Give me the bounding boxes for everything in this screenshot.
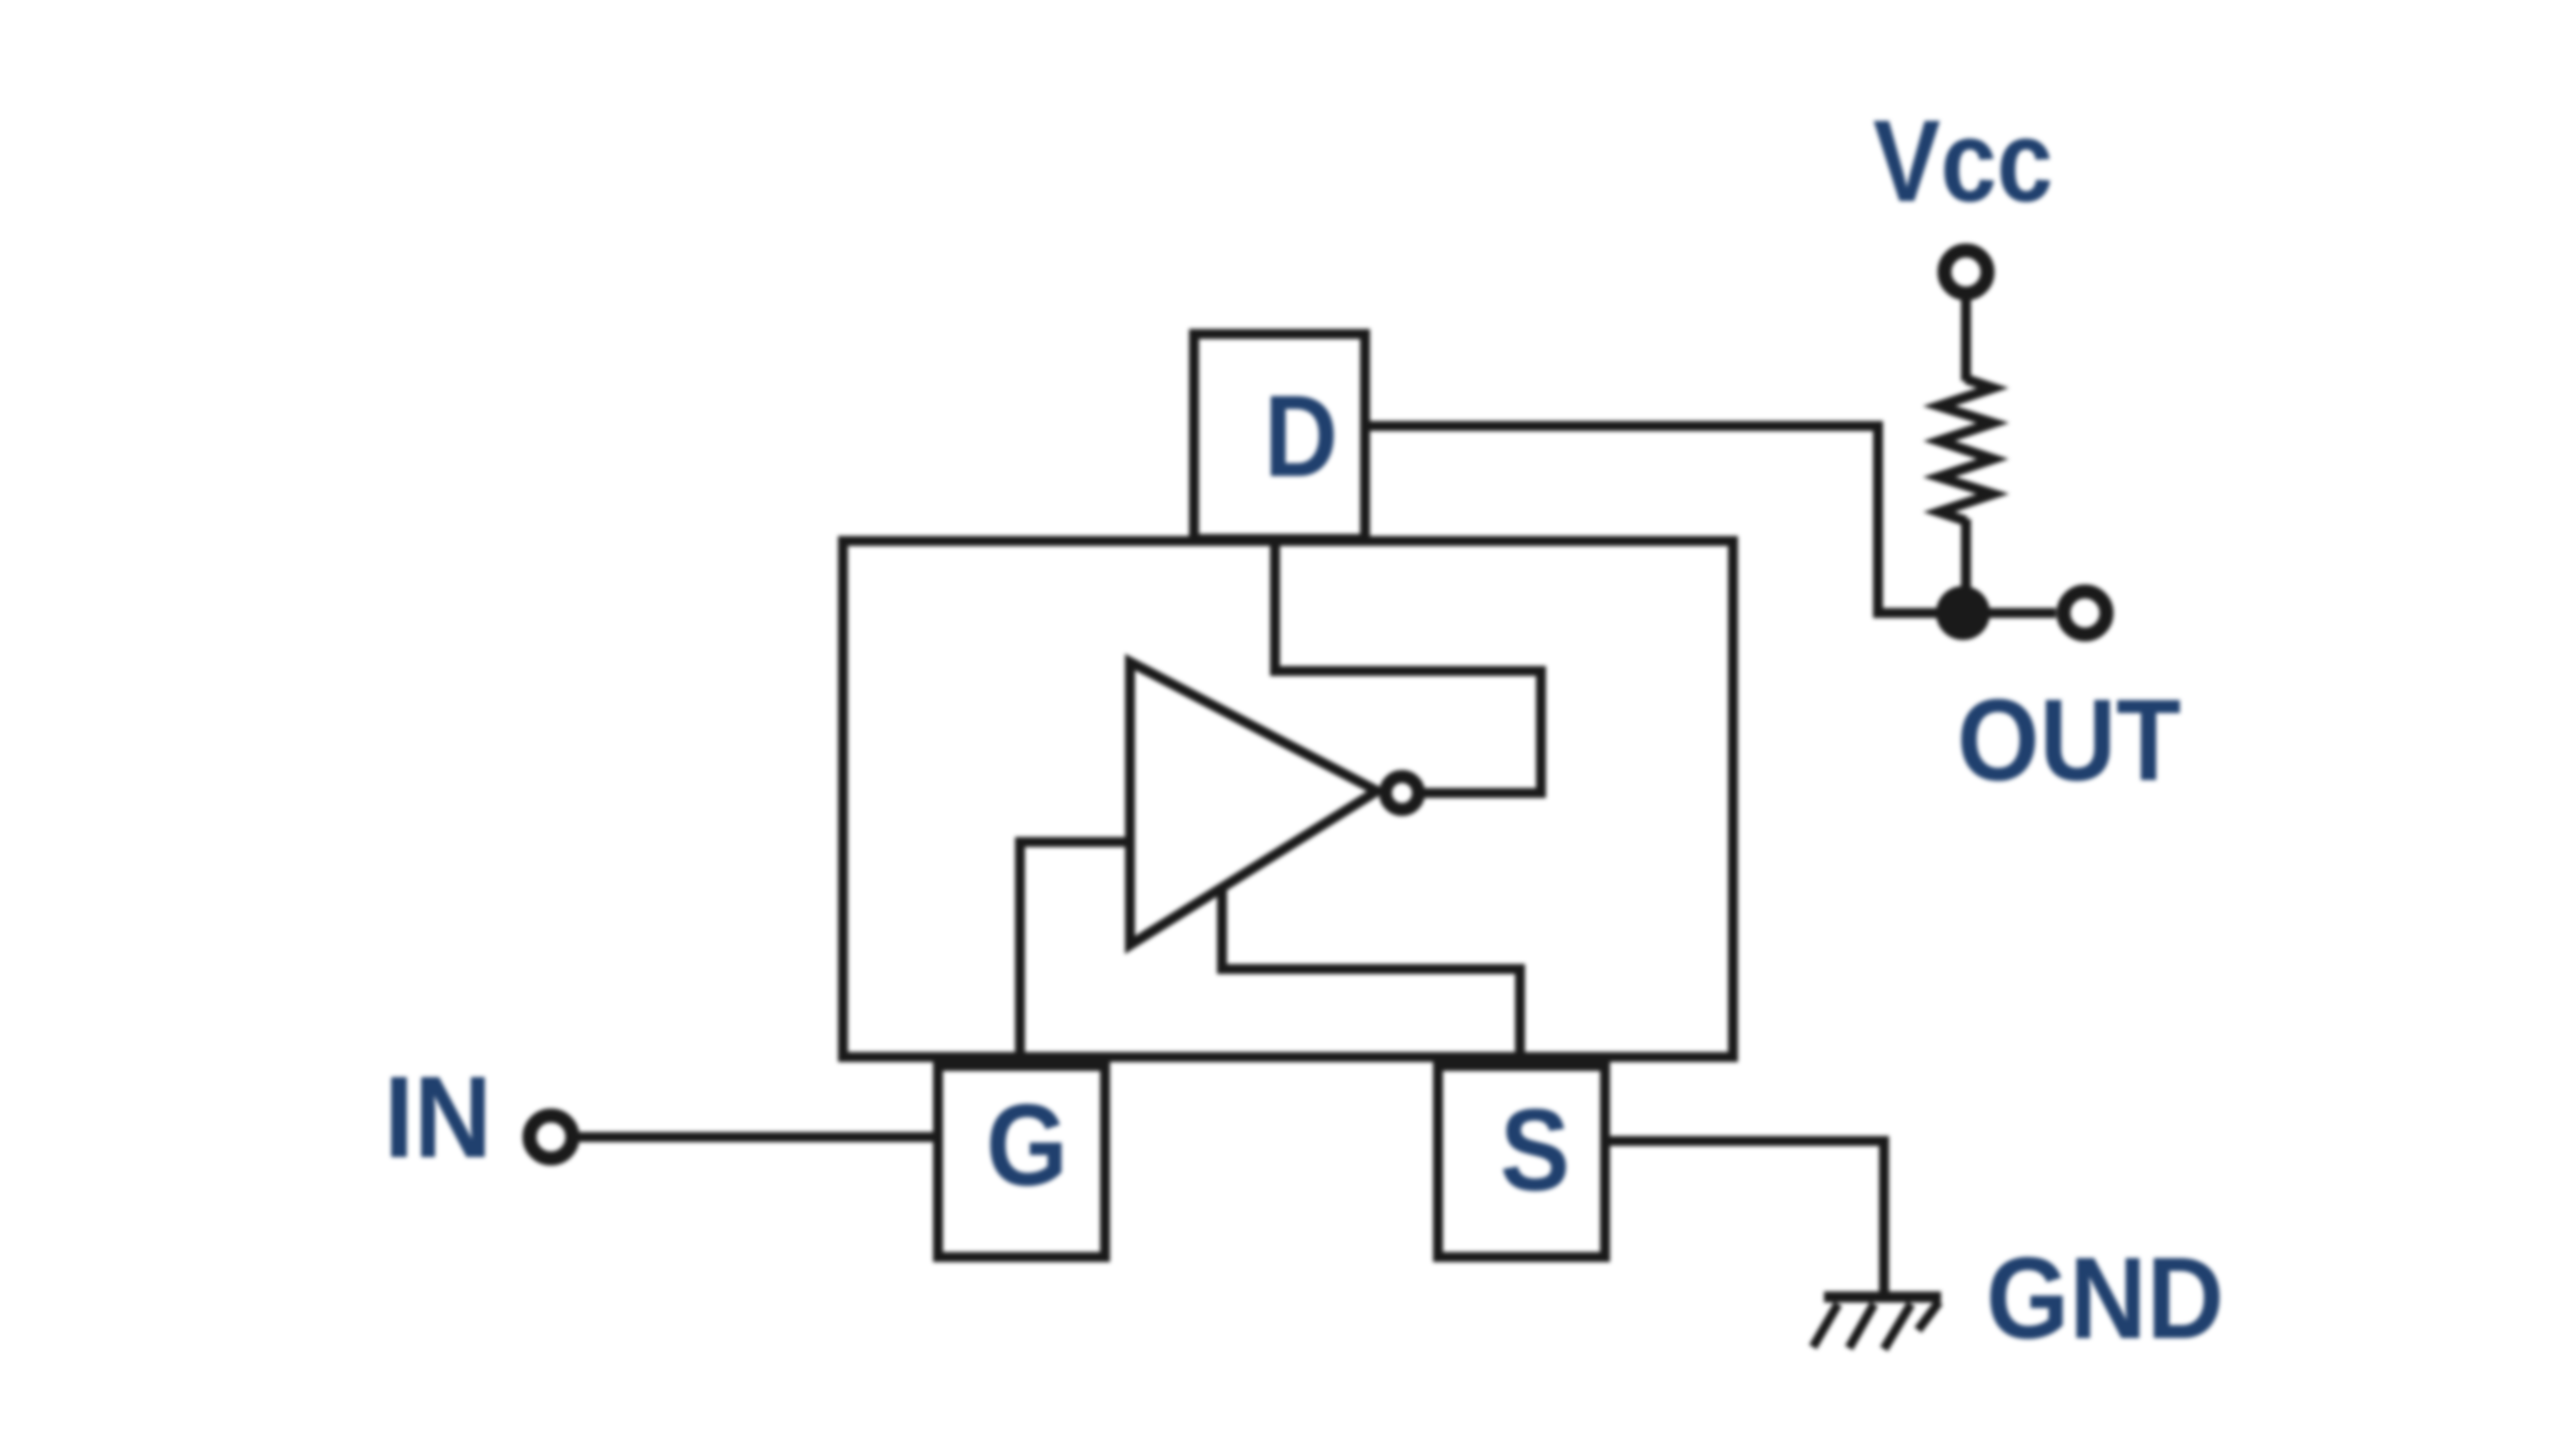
svg-text:G: G	[986, 1080, 1068, 1210]
wire internal D path (from D pin down to inverter output hook)	[1275, 537, 1541, 793]
svg-text:S: S	[1500, 1085, 1570, 1215]
svg-text:IN: IN	[384, 1052, 492, 1182]
wire internal S path (from inverter lower edge down to S pin)	[1222, 884, 1520, 1070]
junction node (resistor / OUT / drain)	[1936, 586, 1990, 640]
inverter U1 triangle	[1130, 662, 1377, 945]
svg-text:D: D	[1264, 371, 1338, 501]
ground symbol	[1813, 1297, 1941, 1349]
svg-text:Vcc: Vcc	[1873, 96, 2053, 226]
wire IN terminal to G pin	[578, 1132, 942, 1142]
pin G box	[938, 1066, 1105, 1257]
inverter output bubble	[1386, 777, 1419, 810]
terminal IN (open circle)	[530, 1116, 573, 1159]
svg-text:OUT: OUT	[1957, 675, 2181, 805]
terminal Vcc (open circle)	[1945, 251, 1988, 294]
terminal OUT (open circle)	[2064, 592, 2107, 635]
wire D pin to resistor junction (horizontal + vertical + horizontal)	[1365, 426, 2056, 613]
pin S box	[1438, 1066, 1605, 1257]
pin D box	[1194, 334, 1365, 539]
wire Vcc terminal to resistor top	[1961, 299, 1971, 381]
resistor R1	[1939, 379, 1993, 613]
svg-text:GND: GND	[1986, 1233, 2224, 1363]
wire internal G path (from G pin up to inverter input)	[1020, 842, 1131, 1070]
wire S pin to ground (horizontal + vertical)	[1601, 1141, 1884, 1297]
IC body U1	[843, 541, 1733, 1057]
